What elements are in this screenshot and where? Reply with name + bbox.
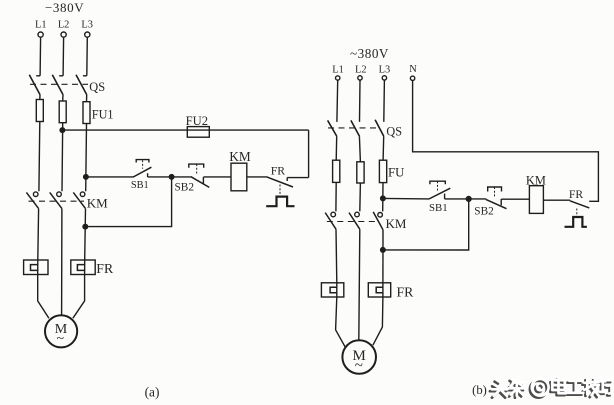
node L2 (a) terminal label	[58, 19, 70, 30]
coil KM (a)	[231, 163, 247, 191]
fuse FU1 element 1 (a)	[36, 100, 43, 122]
svg-text:L1: L1	[332, 65, 344, 76]
wire junction to SB2 (a)	[172, 176, 192, 178]
svg-text:FR: FR	[96, 261, 114, 276]
wire neutral N path (b)	[413, 81, 599, 202]
svg-text:SB1: SB1	[429, 202, 448, 214]
wire self-hold (a)	[85, 177, 171, 227]
pushbutton SB1 stop contact (a)	[133, 160, 151, 178]
contactor KM link dashed (b)	[327, 221, 379, 223]
wire KM coil to FR contact (b)	[543, 199, 570, 201]
wire L2 drop to QS (a)	[59, 37, 63, 76]
fuse FU element 3 (b)	[379, 160, 386, 182]
wire KM coil to FR contact (a)	[247, 176, 268, 178]
terminal circle L2 (b)	[358, 76, 362, 80]
switch QS pole 2 blade (b)	[351, 120, 360, 136]
wire self-hold (b)	[383, 199, 469, 250]
fuse FU1 element 2 (a)	[59, 101, 66, 123]
node L2 (b) terminal label	[355, 65, 367, 76]
svg-text:~380V: ~380V	[350, 46, 389, 61]
fuse FU2 (a)	[187, 127, 209, 138]
wire KM to FR box pole3 (b)	[382, 230, 384, 283]
svg-text:KM: KM	[87, 196, 108, 211]
svg-text:KM: KM	[229, 149, 251, 164]
contactor KM pole 2 contact (a)	[50, 192, 62, 209]
coil KM (b)	[529, 186, 543, 214]
contactor KM pole 1 contact (b)	[325, 212, 336, 229]
svg-text:SB2: SB2	[474, 206, 494, 218]
svg-text:N: N	[409, 64, 417, 75]
wire SB1 to junction (b)	[445, 198, 469, 200]
caption (a)	[145, 385, 160, 400]
thermal relay FR contact label (b)	[569, 188, 584, 201]
wire FU1 to KM pole3 (a)	[85, 124, 88, 192]
terminal circle L1 (a)	[38, 32, 43, 37]
contactor KM pole 2 contact (b)	[349, 212, 360, 229]
wire FU to KM pole1 (b)	[335, 182, 337, 211]
node L3 (a) terminal label	[81, 19, 93, 30]
svg-text:KM: KM	[386, 216, 407, 231]
contactor KM main-contact label (a)	[87, 196, 108, 211]
svg-text:L3: L3	[81, 19, 93, 30]
terminal circle L3 (b)	[382, 76, 386, 80]
wire control right side drop (a)	[308, 130, 310, 178]
svg-text:SB2: SB2	[175, 182, 195, 194]
thermal relay FR heater box 2 (a)	[71, 260, 95, 275]
wire QS to FU1 pole1 (a)	[39, 95, 41, 100]
svg-text:FU: FU	[388, 165, 404, 179]
svg-text:L3: L3	[379, 65, 391, 76]
switch QS pole 1 blade (a)	[29, 75, 40, 95]
wire FR box to motor pole3 (a)	[73, 275, 85, 319]
wire FU to KM pole3 (b)	[382, 183, 384, 212]
watermark white layer	[492, 378, 612, 396]
wire SB1 to junction (a)	[148, 176, 172, 178]
svg-text:(b): (b)	[472, 383, 487, 397]
terminal circle L2 (a)	[61, 32, 66, 37]
junction dot self-hold top (a)	[169, 175, 174, 180]
svg-text:~: ~	[355, 358, 363, 374]
wire FR box to motor pole3 (b)	[373, 297, 383, 345]
contactor KM pole 3 contact (a)	[73, 192, 85, 209]
thermal relay FR NC contact (a)	[266, 177, 308, 206]
wire L2 drop to QS (b)	[359, 80, 362, 122]
svg-text:FU1: FU1	[92, 108, 114, 122]
watermark shadow layer	[490, 380, 610, 398]
switch QS label (b)	[386, 124, 402, 138]
thermal relay FR heater box 2 (b)	[368, 283, 390, 297]
thermal relay FR heater box 1 (b)	[321, 283, 343, 297]
junction dot self-hold bottom on L3 (a)	[83, 224, 88, 229]
node L3 (b) terminal label	[379, 65, 391, 76]
junction dot self-hold bottom on L3 (b)	[381, 248, 386, 253]
wire SB2 to KM coil (b)	[501, 198, 529, 200]
contactor KM pole 1 contact (a)	[26, 192, 38, 209]
pushbutton SB2 start contact (b)	[486, 187, 507, 209]
svg-text:QS: QS	[89, 80, 105, 94]
thermal relay FR contact label (a)	[271, 165, 286, 178]
fuse FU1 label (a)	[92, 108, 114, 122]
fuse FU element 2 (b)	[357, 162, 364, 183]
switch QS label (a)	[89, 80, 105, 94]
svg-text:KM: KM	[526, 173, 546, 187]
svg-text:−380V: −380V	[45, 0, 84, 15]
svg-text:FR: FR	[397, 284, 415, 299]
node N (b) terminal label	[409, 64, 417, 75]
caption (b)	[472, 383, 487, 397]
fuse FU element 1 (b)	[333, 160, 340, 182]
wire QS to FU pole1 (b)	[335, 136, 338, 160]
wire FU1 to KM pole2 (a)	[61, 123, 64, 192]
motor M (b)	[342, 340, 376, 374]
junction dot self-hold top (b)	[466, 197, 471, 202]
fuse FU2 label (a)	[186, 114, 208, 128]
svg-text:L2: L2	[355, 65, 367, 76]
svg-text:FR: FR	[569, 188, 584, 201]
wire junction to SB2 (b)	[469, 198, 487, 200]
pushbutton SB1 stop contact (b)	[429, 181, 450, 199]
pushbutton SB2 label (a)	[175, 182, 195, 194]
node L1 (a) terminal label	[35, 19, 47, 30]
junction dot control tap on L2 (a)	[60, 128, 65, 133]
wire QS to FU1 pole2 (a)	[62, 95, 64, 101]
wire L1 drop to QS (b)	[336, 80, 339, 122]
contactor KM link dashed (a)	[29, 200, 85, 202]
switch QS pole 3 blade (b)	[375, 120, 384, 136]
pushbutton SB1 label (b)	[429, 202, 448, 214]
wire KM to FR box pole1 (a)	[37, 209, 40, 260]
switch QS mechanical link dashed (b)	[328, 127, 379, 129]
coil KM label (b)	[526, 173, 546, 187]
svg-text:FR: FR	[271, 165, 286, 178]
terminal circle L3 (a)	[85, 32, 90, 37]
coil KM label (a)	[229, 149, 251, 164]
svg-text:~: ~	[57, 332, 65, 347]
terminal circle N (b)	[410, 76, 414, 80]
fuse FU1 element 3 (a)	[83, 102, 90, 124]
switch QS pole 2 blade (a)	[52, 75, 63, 95]
wire KM to motor pole2 (b)	[359, 229, 360, 341]
thermal relay FR heater box 1 (a)	[24, 260, 48, 275]
value label ~380V (b)	[350, 46, 389, 61]
wire SB2 to KM coil (a)	[203, 176, 231, 178]
watermark 头条 @电工技巧 (embossed)	[490, 378, 612, 398]
wire FU1 to KM pole1 (a)	[38, 122, 41, 192]
wire L3 tap to SB1 (b)	[383, 197, 429, 200]
contactor KM pole 3 contact (b)	[373, 212, 383, 230]
wire QS to FU pole2 (b)	[359, 136, 360, 162]
pushbutton SB2 start contact (a)	[189, 164, 210, 187]
wire FR box to motor pole1 (a)	[38, 275, 49, 319]
svg-text:(a): (a)	[145, 385, 160, 400]
thermal relay FR heater label (a)	[96, 261, 114, 276]
wire L3 tap to SB1 (a)	[86, 176, 133, 178]
wire FU to KM pole2 (b)	[359, 183, 362, 211]
node L1 (b) terminal label	[332, 65, 344, 76]
wire KM to FR box pole3 (a)	[84, 209, 87, 260]
wire QS to FU pole3 (b)	[382, 136, 385, 160]
svg-text:L1: L1	[35, 19, 47, 30]
junction dot control tap on L3 (b)	[381, 196, 386, 201]
wire FR box to motor pole1 (b)	[336, 297, 346, 347]
svg-text:QS: QS	[386, 124, 402, 138]
fuse FU label (b)	[388, 165, 404, 179]
pushbutton SB2 label (b)	[474, 206, 494, 218]
node control tap dot on L3 (a)	[84, 175, 89, 180]
wire L3 drop to QS (a)	[83, 37, 87, 76]
terminal circle L1 (b)	[336, 76, 340, 80]
contactor KM main-contact label (b)	[386, 216, 407, 231]
thermal relay FR NC contact (b)	[565, 201, 590, 227]
motor M (a)	[45, 315, 77, 347]
svg-text:SB1: SB1	[131, 180, 149, 191]
switch QS pole 1 blade (b)	[328, 120, 337, 136]
wire KM to motor pole2 (a)	[61, 209, 63, 316]
svg-text:FU2: FU2	[186, 114, 208, 128]
wire L3 drop to QS (b)	[383, 80, 386, 122]
wire L1 drop to QS (a)	[36, 37, 40, 76]
pushbutton SB1 label (a)	[131, 180, 149, 191]
wire KM to FR box pole1 (b)	[335, 229, 338, 283]
switch QS mechanical link dashed (a)	[30, 83, 88, 85]
thermal relay FR heater label (b)	[397, 284, 415, 299]
value label ~380V (a)	[45, 0, 84, 15]
switch QS pole 3 blade (a)	[76, 75, 87, 95]
wire QS to FU1 pole3 (a)	[86, 95, 88, 102]
wire control feed to FU2 (a)	[62, 129, 308, 131]
svg-text:L2: L2	[58, 19, 70, 30]
